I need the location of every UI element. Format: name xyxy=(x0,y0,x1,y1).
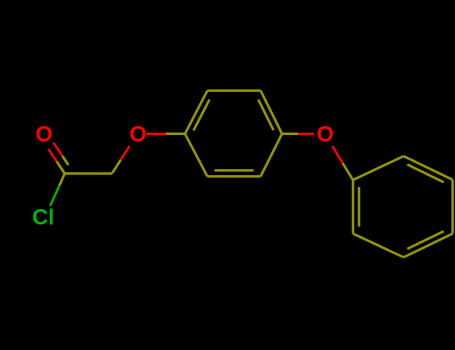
wire C1=O1 double bond second line olive half xyxy=(62,156,68,165)
central benzene ring edge L-TL xyxy=(185,91,207,134)
right phenyl ring edge TR-BR xyxy=(451,180,454,234)
wire C1=O1 double bond main line red half xyxy=(49,149,57,161)
svg-text:Cl: Cl xyxy=(32,204,54,229)
wire O3-phenyl bond red half xyxy=(332,146,342,163)
central benzene ring edge BR-BL xyxy=(207,175,260,178)
wire O3-phenyl bond olive half xyxy=(343,163,353,180)
wire C1=O1 double bond main line olive half xyxy=(57,161,65,173)
wire O2-ring bond red half xyxy=(147,133,166,135)
right ring inner double line on T-TR xyxy=(407,165,443,183)
right phenyl ring edge BL-TL xyxy=(352,180,355,234)
central benzene ring edge TL-TR xyxy=(207,89,260,92)
svg-text:O: O xyxy=(317,121,334,146)
wire C1-CH2 bond olive xyxy=(65,172,112,175)
wire CH2-O2 bond red half xyxy=(121,146,130,160)
central ring inner double line on BR-BL xyxy=(214,169,253,172)
central ring inner double line on L-TL xyxy=(194,100,210,131)
central benzene ring edge TR-R xyxy=(261,91,282,134)
wire ring-O3 bond red half xyxy=(298,133,314,135)
right phenyl ring edge BR-B xyxy=(404,234,453,258)
central ring inner double line on TR-R xyxy=(258,100,273,131)
wire C1-Cl bond green half xyxy=(50,186,59,207)
central benzene ring edge BL-L xyxy=(185,134,207,177)
right ring inner double line on BR-B xyxy=(407,231,443,249)
central benzene ring edge R-BR xyxy=(261,134,282,177)
wire O2-ring bond olive half xyxy=(166,133,185,136)
right phenyl ring edge B-BL xyxy=(353,234,404,258)
right ring inner double line on TL-BL xyxy=(358,187,361,227)
wire C1=O1 double bond second line red half xyxy=(54,143,63,156)
wire CH2-O2 bond olive half xyxy=(112,160,121,174)
wire C1-Cl bond olive half xyxy=(59,174,64,186)
svg-text:O: O xyxy=(35,121,52,146)
wire ring-O3 bond olive half xyxy=(282,133,298,136)
right phenyl ring edge T-TR xyxy=(404,156,453,180)
svg-text:O: O xyxy=(129,121,146,146)
right phenyl ring edge TL-T xyxy=(353,156,404,180)
